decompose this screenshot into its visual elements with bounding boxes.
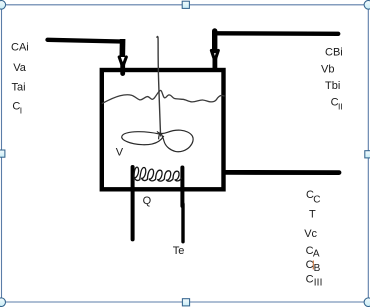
svg-text:C: C xyxy=(313,194,320,205)
left inlet arrowhead xyxy=(119,57,126,66)
coil lead right (Te probe) xyxy=(180,168,184,207)
selection handle right-middle xyxy=(365,151,370,158)
selection handle top-middle xyxy=(182,1,189,8)
left inlet pipe xyxy=(48,40,122,42)
svg-text:Vc: Vc xyxy=(304,228,317,240)
svg-text:II: II xyxy=(338,102,343,112)
svg-text:Va: Va xyxy=(13,62,27,74)
left inlet pipe stem xyxy=(120,39,126,57)
right inlet arrowhead xyxy=(211,51,218,60)
liquid surface wave xyxy=(102,90,225,103)
heating coil Q xyxy=(134,167,182,181)
stirrer blade right xyxy=(157,130,193,152)
svg-text:B: B xyxy=(314,263,321,274)
reactor tank xyxy=(102,70,224,189)
svg-text:C: C xyxy=(306,274,314,286)
stirrer blade left xyxy=(122,132,164,145)
svg-text:Tai: Tai xyxy=(12,81,26,93)
right inlet pipe stem xyxy=(212,31,217,51)
svg-text:CBi: CBi xyxy=(325,47,343,59)
selection handle bottom-right corner xyxy=(364,298,370,307)
right inlet arrow tip xyxy=(212,59,217,70)
selection handle top-right corner xyxy=(364,1,370,10)
coil lead left xyxy=(131,167,135,239)
left inlet arrow tip xyxy=(120,64,125,74)
right inlet pipe xyxy=(217,31,338,36)
svg-text:CAi: CAi xyxy=(11,41,29,53)
svg-text:Tbi: Tbi xyxy=(325,80,340,92)
svg-text:T: T xyxy=(309,209,316,221)
coil lead right lower segment xyxy=(181,204,184,242)
svg-text:III: III xyxy=(314,277,323,288)
svg-text:V: V xyxy=(116,147,124,159)
text cursor xyxy=(312,261,314,270)
svg-text:Vb: Vb xyxy=(321,63,334,75)
outlet pipe xyxy=(225,170,339,175)
selection handle bottom-middle xyxy=(182,299,189,306)
svg-text:A: A xyxy=(313,249,320,260)
selection handle bottom-left corner xyxy=(0,298,6,307)
selection handle top-left corner xyxy=(0,1,6,10)
svg-text:C: C xyxy=(306,259,314,271)
selection handle left-middle xyxy=(0,150,5,157)
svg-text:Q: Q xyxy=(143,195,152,207)
stirrer shaft xyxy=(157,37,161,137)
svg-text:I: I xyxy=(20,106,22,116)
svg-text:Te: Te xyxy=(173,245,185,257)
